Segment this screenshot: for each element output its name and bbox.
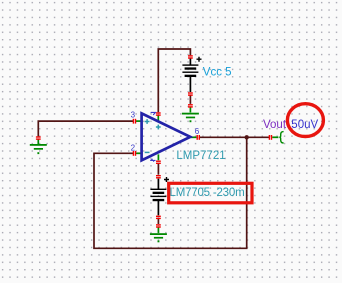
svg-text:LM7705 -230m: LM7705 -230m [170, 187, 245, 199]
svg-text:2: 2 [131, 143, 136, 152]
svg-text:3: 3 [131, 111, 136, 120]
svg-text:6: 6 [195, 127, 200, 136]
svg-text:Vout: Vout [263, 119, 287, 131]
svg-text:LMP7721: LMP7721 [176, 150, 225, 162]
svg-text:Vcc 5: Vcc 5 [203, 67, 232, 79]
svg-text:50uV: 50uV [291, 119, 318, 131]
